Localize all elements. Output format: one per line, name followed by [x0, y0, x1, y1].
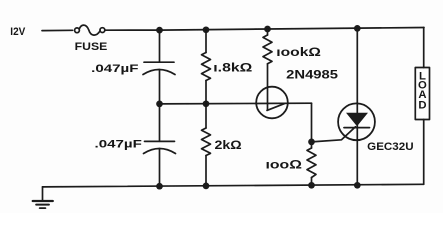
wire: bottom rail [43, 184, 424, 187]
svg-text:I2V: I2V [10, 26, 25, 38]
wire: right edge down to LOAD [423, 28, 425, 68]
wire: LOAD bottom to bottom rail [423, 120, 425, 185]
junction: top rail / C1 branch [156, 27, 163, 34]
junction: mid rail / R1-R2 [203, 100, 210, 107]
wire: C1 bottom lead to mid node [159, 70, 161, 104]
capacitor C1 .047uF [143, 62, 175, 74]
fuse F1 [75, 25, 105, 35]
wire: top rail [105, 28, 424, 31]
junction: top rail / R1 branch [203, 26, 210, 33]
capacitor C2 .047uF [144, 104, 176, 186]
transistor Q1 2N4985 [256, 87, 288, 119]
wire: C1 top lead [159, 30, 161, 62]
resistor R2 2k [202, 104, 211, 186]
junction: gate node [308, 139, 315, 146]
resistor R4 100 [307, 142, 316, 185]
wire: gate node to SCR gate [312, 127, 356, 142]
svg-text:D: D [418, 99, 426, 111]
junction: top rail / R3 branch [264, 26, 271, 33]
svg-text:.047µF: .047µF [95, 138, 142, 150]
junction: top rail / SCR branch [354, 25, 361, 32]
SCR U1 GEC32U [338, 28, 375, 185]
resistor R1 1.8k [202, 30, 211, 104]
load box [415, 68, 429, 120]
wire: middle rail (caps junction to Q1) [160, 102, 312, 105]
svg-text:GEC32U: GEC32U [367, 141, 414, 153]
junction: bottom rail / C2 [156, 183, 163, 190]
junction: mid rail / C1-C2 [156, 101, 163, 108]
svg-text:ı.8kΩ: ı.8kΩ [213, 61, 252, 75]
svg-text:.047µF: .047µF [91, 63, 138, 75]
svg-text:ıooΩ: ıooΩ [266, 157, 302, 171]
svg-text:FUSE: FUSE [75, 41, 108, 53]
junction: bottom rail / R2 [203, 183, 210, 190]
junction: bottom rail / SCR cathode [354, 182, 361, 189]
junction: bottom rail / R4 [308, 182, 315, 189]
wire: R3 to Q1 anode [267, 64, 269, 110]
wire: Q1 right lead down to gate node [311, 103, 313, 142]
label: LOAD (vertical) [418, 70, 427, 111]
ground [33, 187, 53, 208]
svg-text:2kΩ: 2kΩ [215, 138, 243, 152]
svg-text:ıookΩ: ıookΩ [276, 45, 321, 59]
resistor R3 100k [263, 29, 272, 64]
svg-text:2N4985: 2N4985 [286, 68, 338, 82]
wire: 12V to fuse [42, 29, 73, 31]
